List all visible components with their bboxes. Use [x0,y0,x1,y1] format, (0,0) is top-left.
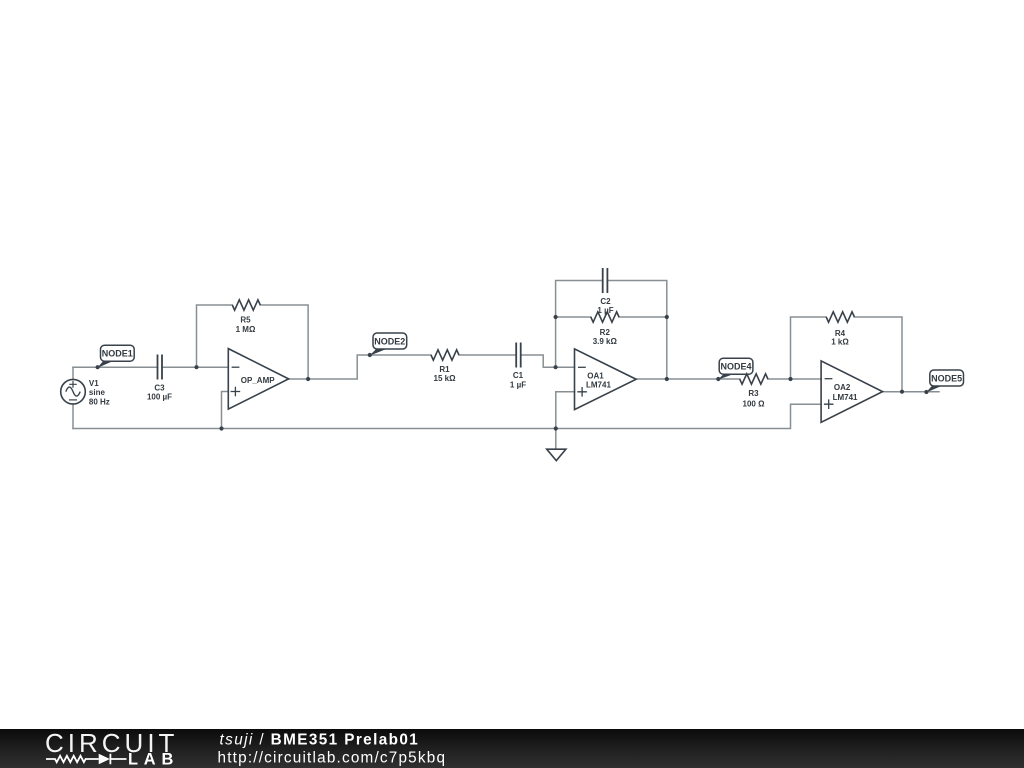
wire V1 top stem [72,367,74,379]
svg-text:C2: C2 [600,297,611,306]
footer bar [0,729,1024,768]
svg-text:V1: V1 [89,379,99,388]
wire ground stem [555,429,557,450]
svg-text:sine: sine [89,388,106,397]
junction OA1 output / C2 right [665,377,669,381]
junction dot NODE2 [368,353,372,357]
svg-text:R1: R1 [439,365,450,374]
wire input net from V1 to C3 left plate [73,366,158,368]
junction OP_AMP output / R5 right [306,377,310,381]
svg-text:LAB: LAB [128,751,179,768]
junction R2 left [554,315,558,319]
wire OP_AMP non-inverting stub to rail [222,392,229,429]
svg-text:3.9 kΩ: 3.9 kΩ [593,337,618,346]
wire C3 right plate to OP_AMP inverting input [162,366,228,368]
wire R1 to C1 left plate [459,354,516,356]
node NODE4 label [718,358,753,380]
junction R2 right [665,315,669,319]
op-amp OA2 LM741 [821,361,883,422]
wire R5 feedback right branch down to output [260,305,308,379]
op-amp U1 OP_AMP [228,349,288,410]
wire OP_AMP output to NODE2 level [289,355,431,379]
svg-text:R3: R3 [748,389,759,398]
wire R4 feedback left vertical [791,317,827,379]
junction OA1 inverting input / C2 left [554,365,558,369]
CircuitLab logo resistor-diode glyph [46,754,127,765]
capacitor C2 [603,268,608,293]
junction rail / OA1 plus stub / ground [554,426,558,430]
wire C2 feedback right branch down to OA1 output [607,281,666,380]
svg-text:1 µF: 1 µF [510,380,526,389]
wire R3 to OA2 inverting input [768,378,821,380]
junction node A (R5 left / C3) [194,365,198,369]
node NODE2 label [369,333,406,356]
svg-text:OA1: OA1 [587,371,604,380]
wire C2 feedback left vertical [556,281,603,368]
junction R4 left / OA2 inverting input [788,377,792,381]
junction OA2 output / R4 right [900,390,904,394]
svg-text:100 Ω: 100 Ω [743,399,766,408]
capacitor C3 [158,355,163,380]
svg-text:NODE4: NODE4 [720,362,751,372]
junction rail / OP_AMP plus stub [219,426,223,430]
ground [547,449,566,460]
svg-text:NODE5: NODE5 [931,373,962,383]
resistor R1 [431,350,459,360]
svg-text:C3: C3 [154,383,165,392]
svg-text:NODE2: NODE2 [374,336,405,346]
resistor R4 [826,312,854,322]
wire C1 right plate stepping down to OA1 inverting input [521,355,575,367]
wire V1 bottom stem to ground rail [72,404,74,429]
voltage source V1 [61,379,86,404]
svg-text:OA2: OA2 [834,383,851,392]
svg-text:C1: C1 [513,371,524,380]
svg-text:LM741: LM741 [586,381,611,390]
wire R5 feedback left branch [197,305,233,367]
svg-text:R5: R5 [240,316,251,325]
wire OA1 output to R3 [636,378,740,380]
wire R2 right segment [619,316,667,318]
junction dot NODE5 [924,390,928,394]
wire R2 left segment [556,316,591,318]
junction dot NODE4 [716,377,720,381]
wire OA2 output to NODE5 [883,391,939,393]
wire R4 feedback right branch down to OA2 output [854,317,902,392]
svg-text:R2: R2 [600,328,611,337]
svg-text:1 MΩ: 1 MΩ [236,325,256,334]
op-amp OA1 LM741 [575,349,637,410]
resistor R3 [740,374,768,384]
svg-text:OP_AMP: OP_AMP [241,376,275,385]
capacitor C1 [516,343,521,368]
svg-text:http://circuitlab.com/c7p5kbq: http://circuitlab.com/c7p5kbq [218,750,447,767]
svg-text:100 µF: 100 µF [147,393,172,402]
resistor R2 [591,312,619,322]
svg-text:15 kΩ: 15 kΩ [434,374,457,383]
wire OA1 non-inverting stub to rail [556,392,575,429]
junction dot NODE1 [96,365,100,369]
svg-text:1 kΩ: 1 kΩ [831,337,849,346]
node NODE5 label [926,370,964,393]
wire bottom ground rail [73,404,821,428]
svg-text:LM741: LM741 [833,393,858,402]
svg-text:tsuji / BME351 Prelab01: tsuji / BME351 Prelab01 [220,731,420,748]
resistor R5 [232,300,260,310]
node NODE1 label [97,345,134,368]
svg-text:NODE1: NODE1 [102,349,133,359]
svg-text:80 Hz: 80 Hz [89,397,110,406]
